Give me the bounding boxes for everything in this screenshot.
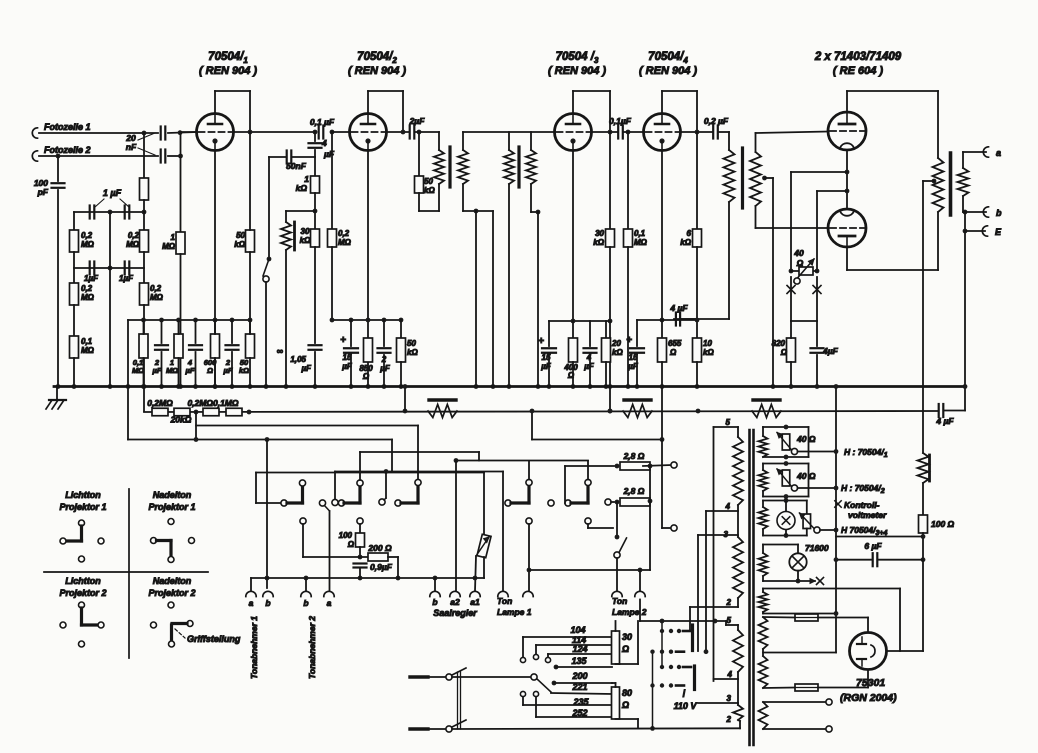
heater row3 loop bbox=[763, 500, 807, 502]
filament terminals bbox=[763, 701, 825, 703]
link bold bars bbox=[691, 625, 694, 651]
Saalregler pot wiper bbox=[476, 537, 489, 556]
lamp2 switch group bbox=[548, 500, 554, 506]
cap 15uF U4 bbox=[636, 320, 638, 346]
svg-text:1µF: 1µF bbox=[119, 274, 134, 283]
svg-text:110 V: 110 V bbox=[674, 701, 698, 711]
wire row 411 long bbox=[144, 411, 938, 412]
wire row 439 bbox=[128, 439, 392, 441]
svg-text:kΩ: kΩ bbox=[296, 183, 308, 193]
svg-text:0,2MΩ0,1MΩ: 0,2MΩ0,1MΩ bbox=[187, 398, 238, 408]
heater secondary w2 bbox=[759, 470, 768, 491]
svg-text:Ω: Ω bbox=[796, 258, 804, 268]
wire caps to grid node bbox=[168, 132, 197, 133]
transformer T1 primary bbox=[438, 132, 440, 150]
wire T1 secondary bottom row bbox=[463, 210, 493, 212]
svg-text:Kontroll-: Kontroll- bbox=[844, 500, 880, 510]
resistor 0,1M cluster bbox=[139, 334, 148, 358]
wire col418 down bbox=[417, 426, 419, 480]
resistor box at grid column bbox=[143, 133, 145, 178]
heater secondary w3 bbox=[759, 507, 768, 529]
resistor 30k col610 bbox=[609, 132, 611, 229]
wire col405 bus to row bbox=[404, 387, 406, 412]
wire hum right col bbox=[816, 191, 818, 271]
resistor 50k col250 bbox=[246, 230, 255, 252]
svg-text:30: 30 bbox=[595, 229, 604, 238]
svg-text:MΩ: MΩ bbox=[162, 242, 176, 251]
svg-text:50nF: 50nF bbox=[286, 161, 307, 171]
capacitor 1uF row2 right bbox=[124, 262, 126, 275]
transformer T3 primary bbox=[728, 132, 730, 150]
row5 bottom to center column bbox=[763, 613, 836, 615]
svg-text:MΩ: MΩ bbox=[132, 366, 144, 375]
svg-text:4µF: 4µF bbox=[822, 346, 839, 356]
svg-text:( REN 904 ): ( REN 904 ) bbox=[348, 65, 406, 77]
svg-text:2: 2 bbox=[726, 715, 732, 724]
svg-text:4 µF: 4 µF bbox=[935, 416, 954, 426]
svg-text:+: + bbox=[538, 336, 544, 347]
resistor 100 bbox=[922, 483, 924, 515]
svg-text:Ton: Ton bbox=[612, 596, 627, 606]
resistor 0,1M col628 bbox=[627, 132, 629, 229]
svg-text:2: 2 bbox=[726, 598, 732, 607]
svg-text:2,8 Ω: 2,8 Ω bbox=[623, 486, 645, 496]
resistor 50k anode U2 bbox=[400, 320, 402, 338]
terminals Saalregler bbox=[430, 591, 440, 596]
svg-text:kΩ: kΩ bbox=[612, 348, 623, 357]
svg-text:Saalregler: Saalregler bbox=[433, 608, 477, 618]
triode U2 REN904 bbox=[350, 114, 387, 151]
svg-text:75301: 75301 bbox=[856, 677, 885, 689]
rail U4 cathode cluster bbox=[637, 319, 697, 321]
wire U1 grid bbox=[180, 131, 197, 133]
transformer T3 core bbox=[741, 148, 744, 208]
svg-text:4: 4 bbox=[725, 502, 731, 511]
svg-text:0,2: 0,2 bbox=[81, 284, 93, 293]
svg-text:( REN 904 ): ( REN 904 ) bbox=[548, 65, 606, 77]
svg-text:b: b bbox=[303, 598, 308, 608]
capacitor 0,9uF bbox=[354, 562, 367, 564]
capacitor 0,2uF bbox=[712, 126, 714, 139]
lamp row4 loop bbox=[763, 544, 798, 546]
svg-text:MΩ: MΩ bbox=[634, 238, 648, 247]
voltmeter symbol row3 bbox=[785, 501, 787, 512]
wire between output tubes bbox=[846, 150, 848, 209]
svg-text:50: 50 bbox=[236, 231, 245, 240]
switch contact left group bbox=[255, 473, 257, 504]
capacitor 0,1uF U3-U4 bbox=[617, 126, 619, 139]
wire 50k anode column bbox=[249, 132, 251, 230]
X marks voltmeter points bbox=[787, 286, 795, 294]
svg-text:30: 30 bbox=[622, 632, 632, 642]
wire U2 anode node bbox=[387, 131, 410, 133]
wire row 570 bbox=[529, 569, 650, 571]
svg-text:MΩ: MΩ bbox=[81, 346, 95, 355]
rheostat below bus 2 bbox=[624, 398, 651, 401]
svg-text:100 Ω: 100 Ω bbox=[931, 519, 955, 529]
center tap HT bbox=[762, 649, 764, 656]
cap row1 wires bbox=[74, 211, 144, 213]
svg-text:Projektor 2: Projektor 2 bbox=[59, 588, 106, 598]
svg-text:0,2 µF: 0,2 µF bbox=[704, 116, 729, 126]
cap 4uF cathode bbox=[589, 321, 591, 346]
svg-text:Projektor 1: Projektor 1 bbox=[59, 502, 106, 512]
capacitor 4uF row right bbox=[938, 404, 940, 417]
wire col923 to rectifier bbox=[922, 560, 924, 651]
capacitor 2uF coupling bbox=[409, 126, 411, 139]
wire secondary top to terminal a bbox=[963, 151, 986, 153]
wire output anode loop bbox=[846, 91, 848, 112]
terminal Fotozelle 2 bbox=[32, 151, 37, 161]
svg-text:Fotozelle 2: Fotozelle 2 bbox=[44, 145, 91, 155]
legend symbol LT P1 bbox=[79, 520, 85, 526]
resistor 0,2M col74 lower bbox=[70, 283, 79, 305]
svg-text:µF: µF bbox=[185, 366, 195, 375]
svg-text:a: a bbox=[327, 598, 332, 608]
terminals Tonabnehmer1 bbox=[246, 591, 256, 596]
svg-text:( REN 904 ): ( REN 904 ) bbox=[639, 65, 697, 77]
svg-text:20kΩ: 20kΩ bbox=[170, 415, 192, 425]
svg-text:0,2: 0,2 bbox=[150, 284, 162, 293]
svg-text:135: 135 bbox=[571, 656, 587, 666]
wire 100pF to bus bbox=[57, 190, 59, 387]
svg-text:Griffstellung: Griffstellung bbox=[187, 634, 241, 644]
svg-text:Lampe 1: Lampe 1 bbox=[497, 607, 532, 617]
wire T3 secondary top to output grid bbox=[756, 132, 828, 134]
terminal E bbox=[982, 226, 987, 236]
svg-text:E: E bbox=[995, 227, 1002, 237]
wire a2 riser bbox=[455, 461, 457, 592]
resistor 400 cathode bbox=[572, 321, 574, 338]
wire col392 down bbox=[391, 440, 393, 472]
svg-text:+: + bbox=[340, 335, 346, 346]
svg-text:Ω: Ω bbox=[621, 700, 629, 710]
cap 1,05uF bbox=[309, 344, 322, 346]
legend symbol NT P1 bbox=[168, 519, 174, 525]
switch elbow from box bbox=[385, 472, 387, 499]
svg-text:820: 820 bbox=[772, 339, 786, 348]
svg-text:Ω: Ω bbox=[669, 348, 677, 357]
wire col110 to bus bbox=[109, 212, 111, 387]
svg-text:1 µF: 1 µF bbox=[103, 188, 122, 198]
svg-text:kΩ: kΩ bbox=[703, 348, 714, 357]
svg-text:Ω: Ω bbox=[780, 348, 788, 357]
output tube upper RE604 bbox=[828, 112, 866, 150]
svg-text:Projektor 2: Projektor 2 bbox=[148, 588, 195, 598]
mains switch row2 bbox=[410, 727, 428, 730]
capacitor 0,1uF U1-U2 bbox=[318, 126, 320, 139]
resistor chain 0,2M 0,2M 0,1M bbox=[152, 408, 168, 416]
svg-text:( REN 904 ): ( REN 904 ) bbox=[199, 65, 257, 77]
svg-text:voltmeter: voltmeter bbox=[848, 510, 887, 520]
capacitor 20nF lower bbox=[160, 150, 162, 163]
svg-text:Ω: Ω bbox=[621, 644, 629, 654]
output tube lower RE604 bbox=[828, 209, 866, 247]
svg-text:Tonabnehmer 1: Tonabnehmer 1 bbox=[249, 616, 259, 679]
svg-text:MΩ: MΩ bbox=[81, 293, 95, 302]
svg-text:0,1: 0,1 bbox=[634, 229, 646, 238]
svg-text:0,9µF: 0,9µF bbox=[370, 562, 393, 572]
svg-text:5: 5 bbox=[727, 616, 732, 625]
heater row2 loop bbox=[763, 463, 809, 465]
svg-text:pF: pF bbox=[37, 187, 49, 197]
rheostat 40 row1 bbox=[782, 434, 790, 450]
wire hum left col bbox=[790, 172, 792, 271]
svg-text:b: b bbox=[996, 208, 1002, 218]
wire T3 secondary bottom to lower grid bbox=[756, 227, 829, 229]
capacitor 1uF row1 right bbox=[124, 206, 126, 219]
terminals Tonabnehmer2 bbox=[301, 591, 311, 596]
svg-text:kΩ: kΩ bbox=[239, 366, 249, 375]
transformer core double bar bbox=[748, 430, 751, 745]
Saalregler pot bbox=[483, 473, 485, 537]
wire rail corner col128 bbox=[127, 320, 129, 440]
resistor 0,2M col74 upper bbox=[73, 212, 75, 230]
capacitor 6uF bbox=[836, 559, 871, 561]
cap 2uF cluster2 bbox=[231, 320, 233, 343]
svg-text:MΩ: MΩ bbox=[81, 240, 95, 249]
output transformer primary bbox=[933, 158, 944, 212]
svg-text:70504/2: 70504/2 bbox=[357, 51, 397, 65]
svg-text:4 µF: 4 µF bbox=[669, 303, 688, 313]
triode U3 REN904 bbox=[555, 114, 592, 151]
svg-text:Ω: Ω bbox=[347, 540, 355, 549]
switch box top row 471 bbox=[335, 471, 503, 473]
rheostat below bus 3 bbox=[753, 398, 780, 401]
cap row2 wires bbox=[74, 267, 144, 269]
transformer T2 secondary bbox=[530, 132, 532, 150]
svg-text:(RGN 2004): (RGN 2004) bbox=[840, 692, 897, 704]
rectifier 75301 bbox=[850, 633, 887, 670]
wire 536 link bbox=[836, 536, 922, 538]
svg-text:40 Ω: 40 Ω bbox=[796, 434, 816, 444]
svg-text:104: 104 bbox=[570, 625, 585, 635]
svg-text:µF: µF bbox=[152, 366, 162, 375]
row5 to rectifier bbox=[763, 588, 900, 590]
svg-text:6 µF: 6 µF bbox=[864, 541, 882, 551]
X mark lamp row bbox=[817, 578, 824, 585]
wire row 425 bbox=[195, 412, 197, 440]
legend divider horizontal bbox=[44, 571, 208, 573]
wire U4 cathode bbox=[661, 151, 663, 321]
svg-text:655: 655 bbox=[668, 339, 682, 348]
resistor 820 bbox=[787, 338, 796, 362]
cap 2uF cluster bbox=[161, 320, 163, 343]
mains switch row1 bbox=[410, 675, 428, 678]
resistor 0,2M col144 upper bbox=[143, 212, 145, 230]
svg-text:µF: µF bbox=[540, 362, 552, 371]
wire U3 cathode bbox=[572, 151, 574, 322]
wire U4 anode loop bbox=[661, 91, 663, 114]
svg-text:/: / bbox=[683, 689, 686, 700]
rheostat 40 hum bbox=[791, 270, 817, 272]
svg-text:100: 100 bbox=[339, 531, 353, 540]
svg-text:Ω: Ω bbox=[362, 372, 370, 381]
wire lower tube bottom loop bbox=[846, 247, 848, 270]
svg-text:a: a bbox=[996, 148, 1001, 158]
wire U1 cathode to bus bbox=[214, 151, 216, 387]
svg-text:0,1 µF: 0,1 µF bbox=[310, 117, 335, 127]
resistor 20k cathode bbox=[605, 321, 607, 338]
wire col181 to bus bbox=[180, 254, 182, 387]
transformer T3 secondary bbox=[755, 133, 757, 152]
wire anode node to coupling cap bbox=[234, 131, 316, 133]
svg-text:40 Ω: 40 Ω bbox=[796, 471, 816, 481]
anode decoupling rail bbox=[128, 319, 250, 321]
rheostat below bus 1 bbox=[429, 398, 456, 401]
svg-text:Tonabnehmer 2: Tonabnehmer 2 bbox=[307, 616, 317, 679]
lamp1 switch group bbox=[502, 472, 504, 592]
svg-text:0,2: 0,2 bbox=[81, 231, 93, 240]
svg-text:70504/4: 70504/4 bbox=[648, 51, 688, 65]
svg-text:0,2: 0,2 bbox=[338, 229, 350, 238]
terminal Fotozelle 1 bbox=[32, 128, 37, 138]
svg-text:+: + bbox=[626, 335, 632, 346]
switch box left contact bbox=[334, 472, 336, 500]
switch contact mid-left bbox=[319, 500, 325, 506]
wire row 461 bbox=[456, 460, 588, 462]
wire U3 anode to cap bbox=[592, 131, 618, 133]
resistor 30k with slider bbox=[286, 210, 315, 212]
svg-text:MΩ: MΩ bbox=[126, 240, 140, 249]
wire row 472 bbox=[256, 472, 484, 474]
svg-text:µF: µF bbox=[379, 364, 391, 373]
svg-text:0,2: 0,2 bbox=[128, 231, 140, 240]
svg-text:Lampe 2: Lampe 2 bbox=[612, 607, 647, 617]
cap 4uF cluster bbox=[195, 320, 197, 343]
resistor 50k col419 bbox=[418, 132, 420, 176]
wire col144 middle bbox=[143, 252, 145, 283]
svg-text:b: b bbox=[265, 598, 270, 608]
svg-text:70504/1: 70504/1 bbox=[208, 51, 248, 65]
svg-text:10: 10 bbox=[703, 339, 712, 348]
switch link bars bbox=[457, 672, 459, 729]
wire row 452 bbox=[360, 451, 479, 453]
capacitor 100pF bbox=[57, 156, 59, 181]
svg-text:kΩ: kΩ bbox=[300, 236, 311, 245]
wire U2 cathode bbox=[367, 151, 369, 387]
output transformer tap bbox=[932, 179, 937, 184]
resistor 0,2M col332 bbox=[331, 132, 333, 229]
svg-text:0,1: 0,1 bbox=[81, 337, 93, 346]
filament secondary bbox=[759, 702, 768, 729]
svg-text:µF: µF bbox=[223, 366, 233, 375]
svg-text:3: 3 bbox=[727, 694, 732, 703]
svg-text:µF: µF bbox=[323, 149, 335, 159]
svg-text:124: 124 bbox=[572, 644, 587, 654]
svg-text:Nadelton: Nadelton bbox=[153, 576, 192, 586]
svg-text:Projektor 1: Projektor 1 bbox=[148, 502, 195, 512]
plug circles 100ohm net bbox=[300, 518, 306, 524]
output transformer core bbox=[949, 153, 953, 215]
wire 2,8 ohm feed bbox=[531, 411, 533, 440]
cap 2uF U2 cathode bbox=[383, 320, 385, 346]
heater row1 loop bbox=[763, 426, 809, 428]
svg-text:Ton: Ton bbox=[497, 596, 512, 606]
svg-text:1,05: 1,05 bbox=[290, 355, 306, 364]
wire 0,2M col to rail bbox=[331, 247, 333, 320]
svg-text:71600: 71600 bbox=[805, 543, 829, 553]
transformer T2 core bbox=[517, 147, 520, 187]
svg-text:MΩ: MΩ bbox=[166, 366, 178, 375]
svg-text:1µF: 1µF bbox=[84, 274, 99, 283]
wire T1 secondary top rail bbox=[463, 131, 555, 133]
resistor 10k bbox=[696, 320, 698, 338]
lamp 71600 bbox=[789, 553, 806, 570]
svg-text:200 Ω: 200 Ω bbox=[367, 543, 392, 553]
resistor 6k col697 bbox=[696, 132, 698, 229]
triode U4 REN904 bbox=[644, 114, 681, 151]
resistor 80 selector bbox=[612, 687, 620, 719]
terminals Ton Lampe 2 bbox=[612, 591, 622, 596]
terminals Ton Lampe 1 bbox=[498, 591, 508, 596]
svg-text:2,8 Ω: 2,8 Ω bbox=[623, 451, 645, 461]
switch group right bbox=[395, 500, 401, 506]
svg-text:Lichtton: Lichtton bbox=[65, 576, 101, 586]
resistor zigzag right col923 bbox=[918, 453, 929, 483]
svg-text:kΩ: kΩ bbox=[593, 238, 604, 247]
svg-text:( RE 604 ): ( RE 604 ) bbox=[833, 65, 883, 77]
resistor 850 U2 cathode bbox=[364, 338, 373, 362]
cap 15uF U2 cathode bbox=[350, 320, 352, 346]
svg-text:Fotozelle 1: Fotozelle 1 bbox=[44, 122, 91, 132]
heater secondary w4 bbox=[759, 553, 768, 576]
svg-text:b: b bbox=[432, 597, 437, 607]
legend symbol NT P2 bbox=[168, 602, 174, 608]
svg-text:a2: a2 bbox=[450, 597, 460, 607]
svg-text:1: 1 bbox=[171, 233, 176, 242]
tap connection verticals bbox=[713, 427, 715, 681]
wire col144 to row bbox=[143, 305, 145, 411]
svg-text:kΩ: kΩ bbox=[234, 240, 245, 249]
wire U3 anode loop bbox=[572, 91, 574, 114]
svg-text:∞: ∞ bbox=[277, 346, 284, 356]
wire T3 tap bbox=[762, 176, 767, 181]
label Griffstellung bbox=[175, 629, 185, 638]
svg-text:4: 4 bbox=[727, 670, 733, 679]
svg-text:kΩ: kΩ bbox=[407, 348, 418, 357]
svg-text:µF: µF bbox=[301, 364, 313, 373]
resistor 1k bbox=[314, 150, 316, 176]
transformer primary lower bbox=[737, 625, 739, 630]
svg-text:MΩ: MΩ bbox=[150, 293, 164, 302]
svg-text:kΩ: kΩ bbox=[680, 238, 691, 247]
transformer T1 core bbox=[448, 147, 451, 187]
capacitor 1uF row1 left bbox=[89, 206, 91, 219]
dash-dot selector links bbox=[661, 621, 663, 668]
svg-text:6: 6 bbox=[687, 229, 692, 238]
row 621 bbox=[640, 620, 726, 622]
terminal a bbox=[983, 147, 988, 157]
svg-text:0,2MΩ: 0,2MΩ bbox=[147, 398, 173, 408]
wire T2 secondary bottom bbox=[531, 211, 538, 213]
heater secondary w1 bbox=[759, 436, 768, 457]
wire col836 bus down bbox=[835, 387, 837, 653]
svg-text:0,1µF: 0,1µF bbox=[609, 116, 632, 126]
resistor 30k box col315 bbox=[314, 211, 316, 229]
heater secondary w5 bbox=[759, 592, 768, 612]
fuse row1 bbox=[763, 616, 795, 619]
triode U1 REN904 bbox=[197, 114, 234, 151]
resistor 200 bbox=[368, 553, 388, 561]
resistor 100 bbox=[356, 533, 365, 547]
wire Fotozelle1 bbox=[39, 132, 158, 134]
wire Fotozelle2 bbox=[39, 155, 158, 157]
svg-text:4: 4 bbox=[321, 138, 327, 148]
svg-text:kΩ: kΩ bbox=[424, 186, 435, 195]
resistor 50k cluster bbox=[246, 334, 255, 358]
wire hum line 172 bbox=[791, 171, 847, 173]
